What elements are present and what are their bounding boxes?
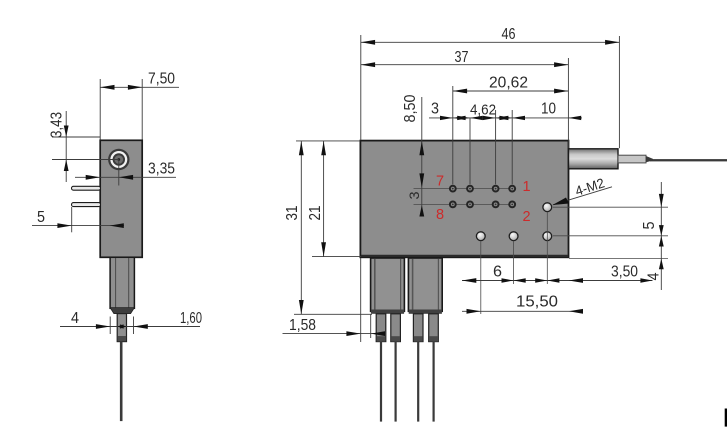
svg-text:4: 4	[71, 310, 79, 327]
svg-text:5: 5	[641, 221, 658, 229]
dimension 37	[361, 49, 569, 148]
svg-text:1: 1	[523, 179, 531, 195]
dimension 4 and 1,60 (ferrule / tip)	[60, 310, 202, 334]
centerline to bore	[52, 160, 119, 186]
wire 4	[433, 342, 435, 422]
svg-text:3,35: 3,35	[148, 161, 175, 178]
wire 1	[380, 342, 382, 422]
dimension 5 (pin length)	[32, 207, 124, 232]
red pin number 8	[436, 207, 444, 223]
dimension 3,35	[75, 161, 176, 180]
hole extension lines (vertical)	[481, 212, 548, 314]
svg-text:4,62: 4,62	[470, 102, 496, 119]
small sleeve 3	[413, 314, 423, 342]
mounting hole C (bottom mid)	[509, 232, 518, 241]
dimension 3,43 (vertical)	[49, 111, 101, 182]
dimension 8,50 (vertical)	[402, 94, 424, 215]
mounting hole D (bottom right)	[543, 232, 552, 241]
black mark bottom right	[725, 409, 727, 427]
svg-text:46: 46	[502, 26, 516, 43]
dimension 7,50	[100, 71, 179, 140]
svg-text:7,50: 7,50	[148, 71, 175, 88]
svg-text:20,62: 20,62	[489, 75, 528, 92]
right side extension lines	[553, 207, 668, 258]
dimension 6 and 3,50	[462, 264, 653, 283]
small sleeve 4	[429, 314, 439, 342]
dimension 3 (vertical pin row pitch)	[406, 191, 424, 216]
body (side view housing)	[100, 140, 142, 257]
ferrule tip	[117, 314, 126, 342]
dimension 5 (vertical right)	[641, 182, 664, 290]
dimension 31 (vertical)	[284, 141, 372, 314]
pin (upper lead)	[72, 186, 101, 190]
wire 3	[417, 342, 419, 422]
svg-text:3,50: 3,50	[611, 264, 638, 281]
pin holes row 2	[449, 201, 516, 209]
dimension 15,50	[462, 294, 583, 314]
pin hole row lines	[414, 189, 513, 205]
small sleeve 2	[391, 314, 401, 342]
dimension 46	[361, 26, 620, 148]
svg-text:31: 31	[284, 205, 301, 220]
svg-text:8,50: 8,50	[402, 94, 419, 122]
pin (lower lead)	[72, 203, 101, 207]
ferrule barrel (below body)	[110, 257, 134, 313]
dimension 21 (vertical)	[307, 141, 361, 257]
svg-text:1,58: 1,58	[289, 317, 316, 334]
dimension 1,58	[283, 258, 386, 342]
svg-text:37: 37	[455, 49, 469, 66]
4-M2 leader and label	[553, 175, 613, 205]
fiber bore (end-view concentric circles)	[108, 149, 129, 170]
svg-text:7: 7	[436, 174, 444, 190]
red pin number 2	[523, 209, 531, 225]
snout large cylinder	[569, 149, 619, 169]
red pin number 7	[436, 174, 444, 190]
svg-text:21: 21	[307, 205, 324, 220]
mounting hole B (bottom left)	[476, 232, 485, 241]
chained dimensions 3 / 4,62 / 10	[429, 101, 582, 185]
snout small cylinder	[618, 155, 653, 163]
red pin number 1	[523, 179, 531, 195]
small sleeve 1	[376, 314, 386, 342]
svg-text:4: 4	[646, 272, 663, 280]
svg-text:8: 8	[436, 207, 444, 223]
dimension 20,62	[453, 75, 569, 185]
connector tube 2 (large)	[408, 258, 442, 314]
svg-text:2: 2	[523, 209, 531, 225]
dimension 4 (vertical right)	[646, 259, 664, 281]
body (top view housing)	[360, 141, 568, 258]
svg-text:10: 10	[541, 101, 556, 118]
svg-text:5: 5	[37, 209, 45, 226]
fiber (left view)	[120, 342, 123, 422]
svg-text:1,60: 1,60	[180, 310, 202, 327]
svg-text:3,43: 3,43	[49, 112, 66, 138]
svg-text:3: 3	[431, 101, 439, 118]
svg-text:3: 3	[406, 191, 422, 199]
wire 2	[395, 342, 397, 422]
fiber (right view)	[650, 159, 727, 161]
svg-text:6: 6	[493, 264, 502, 281]
mounting hole A (right top)	[543, 203, 552, 212]
pin holes row 1	[449, 185, 516, 193]
svg-text:15,50: 15,50	[516, 294, 558, 311]
connector tube 1 (large)	[371, 258, 405, 314]
